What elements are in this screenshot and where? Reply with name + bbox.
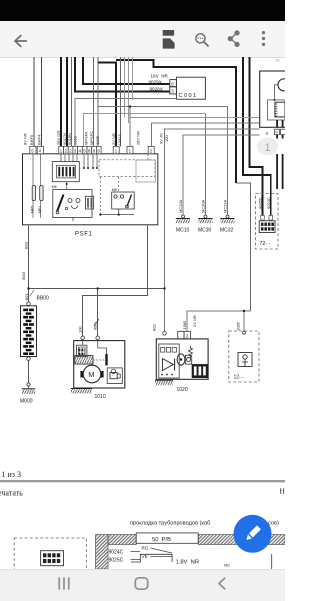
corner to MC32 ground: [227, 107, 229, 216]
wire thin vertical x124: [124, 57, 126, 118]
ground MC32: [226, 215, 229, 218]
ground MC30: [204, 215, 207, 218]
corner to MC30 ground: [205, 114, 207, 216]
wire 9028X thick L to C001 pin3: [75, 57, 170, 92]
battery feed bus B01: [29, 288, 165, 290]
overflow menu: [262, 31, 265, 46]
ground M000: [22, 388, 35, 390]
corner C3 down to 1020: [165, 129, 260, 332]
thin bus y113.5 feeding pin x83.5: [84, 114, 206, 147]
wire 28VNR thin vertical: [132, 57, 134, 100]
pencil icon: [244, 525, 261, 542]
thin bus y98.6 to pin x75: [75, 99, 176, 147]
1010 pump box: [107, 368, 122, 384]
app logo icon: [163, 30, 175, 49]
mid coil component: [86, 196, 94, 209]
fuse MF5: [32, 154, 34, 218]
battery BB00: [27, 302, 31, 306]
right thick bundle wire B: [243, 57, 271, 220]
corner C1 to PSF1 pin: [130, 117, 260, 119]
module inner circle B: [278, 79, 290, 91]
module pin row: [274, 129, 285, 135]
connector 72 dashed box: [256, 194, 279, 250]
wire CM13 thick elbow: [98, 63, 116, 147]
navbar: recents icon: [59, 578, 69, 589]
wire 1085 to 1020 and 12 box: [187, 311, 250, 331]
stubs from pins into block: [61, 154, 97, 190]
wire 2VNR thin vertical: [120, 57, 122, 147]
PSF1 top pins: [30, 146, 154, 154]
junction dot: [129, 105, 131, 107]
share icon: [228, 31, 239, 47]
page2 hatched wall band: [96, 535, 109, 569]
PSF1 box: [23, 154, 158, 225]
navbar: back icon: [219, 578, 225, 589]
1020 diode block: [159, 344, 179, 378]
wiring diagram page content: [0, 57, 285, 569]
wire battery to ground: [28, 361, 30, 384]
1020 motor oval: [177, 354, 185, 365]
page2 dashed connector box: [14, 538, 86, 571]
wire thin vertical x128: [128, 57, 130, 123]
1010 ground hatch: [71, 388, 92, 390]
wire 9017N thick vertical: [66, 57, 68, 147]
wire 100: PSF1 bottom to 1010: [83, 225, 148, 336]
ground MC10: [182, 215, 185, 218]
PSF1 dashed logic box: [99, 160, 155, 177]
PSF1 interior: connector block: [52, 162, 79, 182]
dashed drops: [100, 154, 148, 215]
wire 16VNR thick steps to right bundle: [116, 60, 236, 183]
1010 contact bar: [105, 354, 107, 365]
wire MPSFC thin vertical: [97, 57, 99, 147]
interior wires: [73, 209, 134, 221]
wire 9018N thin vertical: [70, 57, 72, 147]
search/zoom icon: [196, 34, 209, 47]
component 1020: [163, 332, 167, 336]
page2 label 50 P/B: [136, 533, 198, 543]
1010 connector: [77, 345, 87, 356]
wire 9029X thick L to C001 pin6: [83, 57, 170, 84]
node circle 1: [257, 138, 278, 156]
module box top right: [260, 71, 286, 127]
back arrow: [15, 36, 26, 47]
wire B03 from PSF1 to battery: [28, 225, 30, 302]
wire pin1 drop: [129, 107, 131, 147]
connector C001: [170, 77, 206, 99]
long thin bus y107 with junction: [98, 106, 228, 108]
1020 small sensor: [185, 355, 191, 364]
1010 solenoid: [75, 356, 93, 365]
branch to 1010 pin2: [97, 289, 99, 337]
connector 12 dashed box: [229, 331, 259, 382]
right thick bundle wire A: [250, 57, 263, 220]
wire 28VGR thick vertical: [60, 57, 62, 147]
status bar: [0, 0, 285, 21]
junction dot on 9029X bus: [119, 83, 122, 86]
navbar: home icon: [135, 578, 147, 589]
1020 dark connector: [192, 364, 208, 378]
page2 step wire: [131, 554, 172, 562]
corner C4 down to MC10: [183, 135, 260, 216]
wire 8VNR vertical: [33, 57, 35, 147]
wire MPSFA thin vertical: [93, 57, 95, 147]
module hatched connector: [268, 100, 285, 120]
app toolbar: [0, 21, 285, 58]
wire BHF4 vertical: [41, 57, 43, 147]
page separator: [0, 480, 285, 482]
FAB edit button: [234, 515, 272, 553]
1010 dashed link: [93, 359, 105, 361]
rotated wire labels above PSF1: [23, 131, 170, 145]
1020 ground: [155, 379, 173, 381]
1020 resistor: [189, 346, 193, 358]
corner C2 to PSF1 pin2: [152, 123, 260, 147]
1010 motor: [83, 365, 101, 383]
navigation bar: [0, 569, 285, 601]
page2 right edge line: [271, 554, 273, 569]
connector 72 symbol: [259, 221, 275, 233]
fuse MF4: [40, 154, 42, 218]
